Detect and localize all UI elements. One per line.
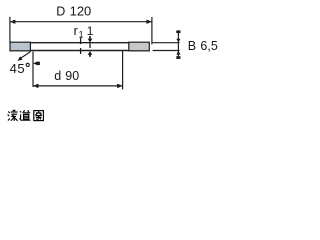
svg-text:D: D	[56, 5, 65, 19]
svg-text:B: B	[188, 39, 196, 53]
svg-text:120: 120	[70, 4, 92, 19]
svg-text:1: 1	[87, 24, 94, 38]
svg-text:90: 90	[65, 69, 79, 83]
svg-text:45: 45	[10, 61, 25, 76]
svg-text:6,5: 6,5	[200, 39, 217, 53]
svg-text:1: 1	[79, 29, 84, 39]
svg-text:d: d	[54, 69, 61, 83]
svg-text:r: r	[74, 24, 78, 38]
